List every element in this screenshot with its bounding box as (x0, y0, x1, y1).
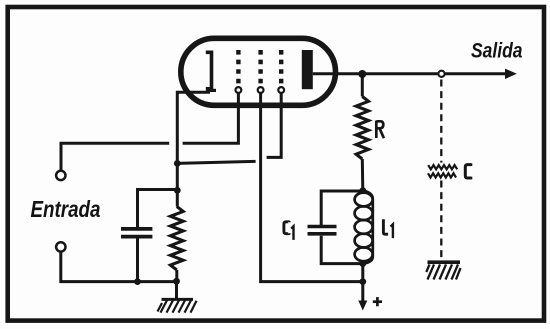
svg-text:Salida: Salida (471, 40, 523, 63)
svg-text:Entrada: Entrada (31, 196, 101, 222)
